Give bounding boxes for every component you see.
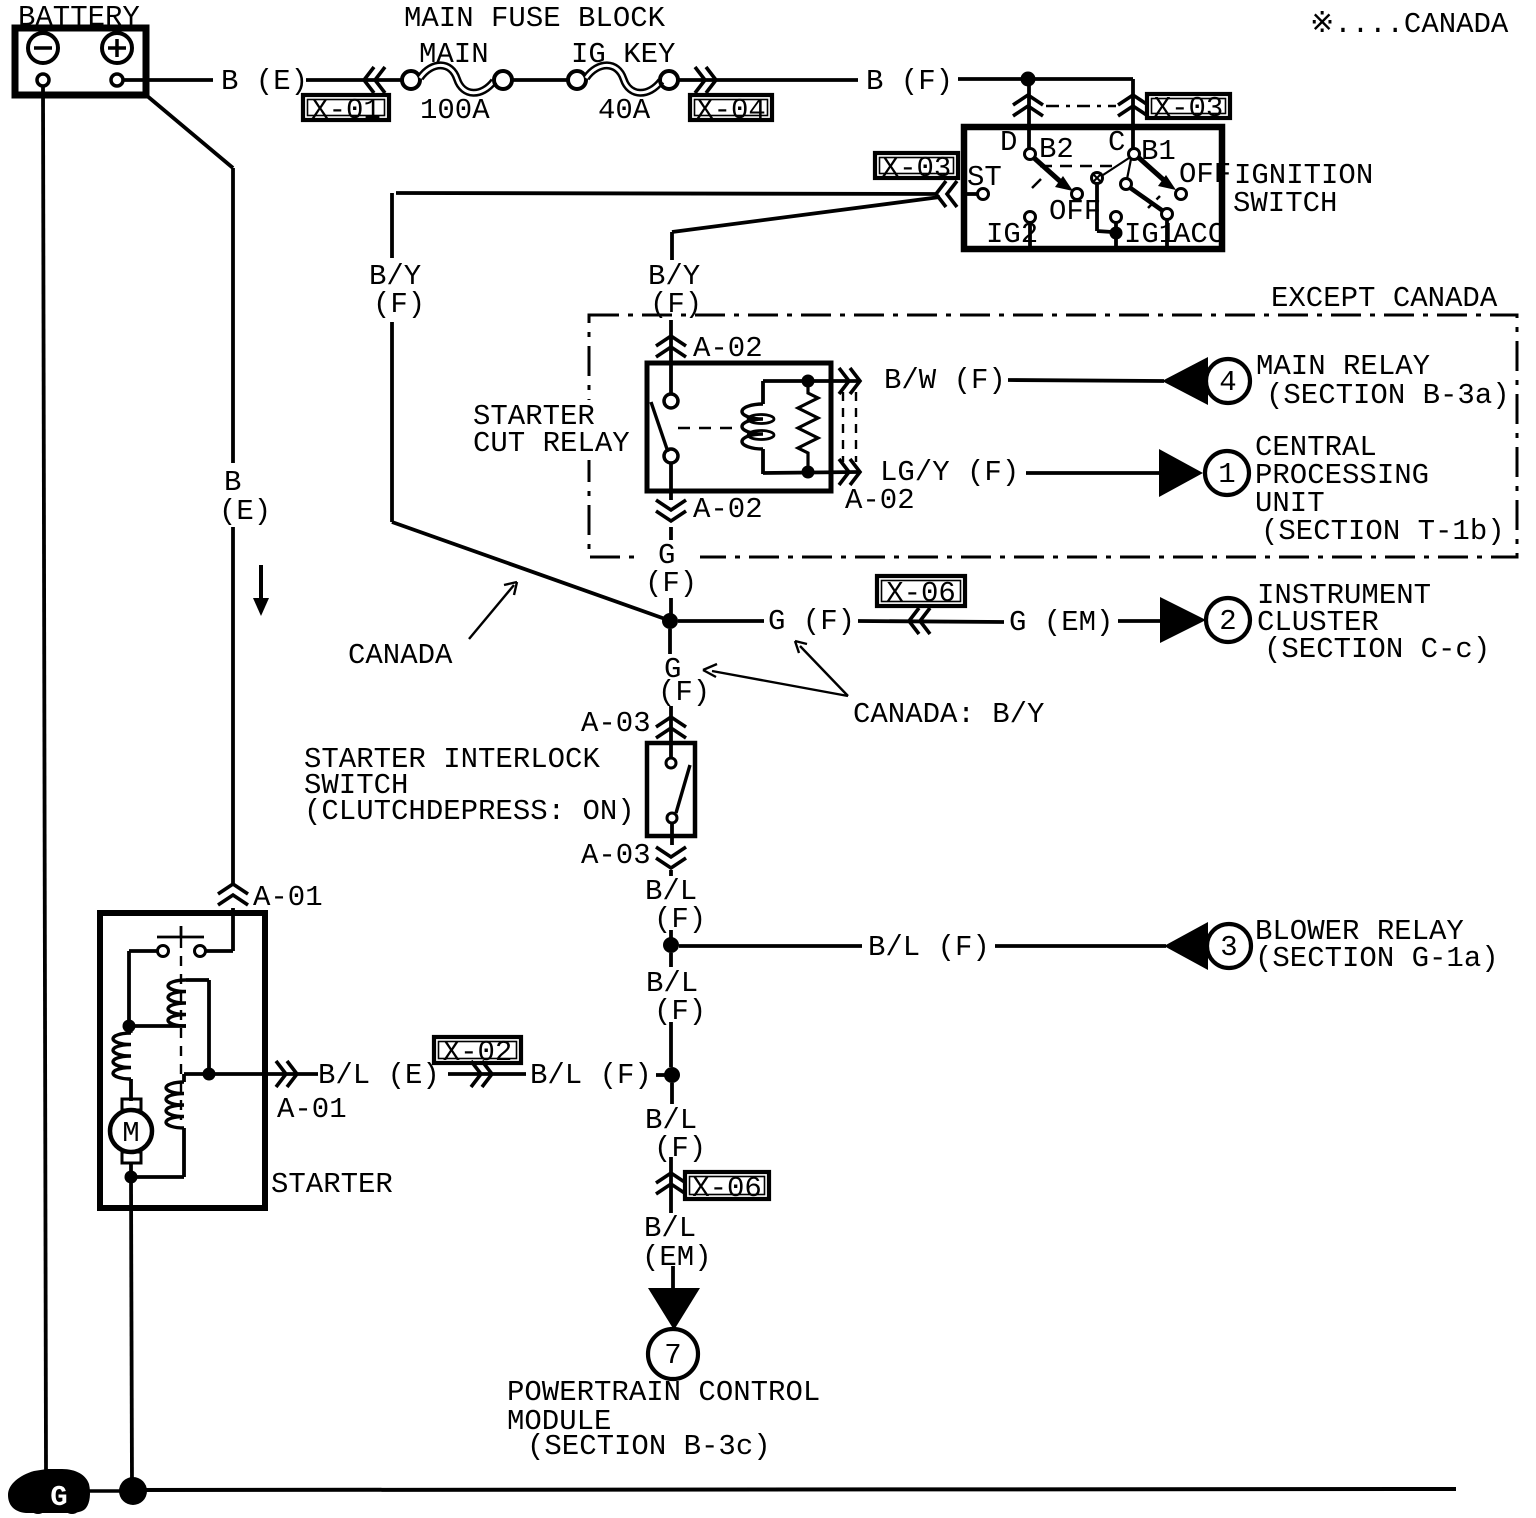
svg-text:B2: B2 [1039, 133, 1074, 166]
svg-text:ACC: ACC [1173, 218, 1225, 251]
wire to interlock [669, 706, 673, 743]
hold-in coil [168, 980, 186, 1026]
wire ground bond [84, 1489, 120, 1493]
svg-text:40A: 40A [598, 94, 651, 127]
wire B/W to main relay [1008, 380, 1164, 381]
wire ground bus [133, 1489, 1456, 1490]
contact IG2 with pin wire [1025, 212, 1036, 223]
contact ACC with pin wire [1162, 209, 1173, 220]
node IG1 [1110, 227, 1123, 240]
wire battery negative down [43, 87, 46, 1471]
arrow to main relay [1162, 357, 1208, 405]
svg-text:B (E): B (E) [221, 65, 308, 98]
connector X-03 (ST) [875, 153, 958, 178]
svg-text:A-02: A-02 [845, 484, 915, 517]
fuse MAIN 100A [402, 38, 512, 127]
svg-text:(F): (F) [645, 567, 697, 600]
wire battery positive to B(E) [123, 78, 213, 82]
relay dashed actuator link [678, 427, 740, 430]
wire into relay [669, 363, 673, 395]
wire B/L inside starter [184, 1072, 265, 1076]
contact OFF left [1072, 189, 1083, 200]
contact IG1 with pin wire [1111, 212, 1122, 223]
thin link B1 to transfer [1103, 158, 1129, 175]
svg-text:A-03: A-03 [581, 707, 651, 740]
wire B/L(E) out of starter [265, 1072, 318, 1076]
connector X-01 [303, 95, 389, 120]
dashed mark near ACC [1148, 196, 1160, 208]
arrow to instrument cluster [1160, 597, 1206, 643]
relay top bar [763, 379, 858, 383]
svg-text:CANADA: B/Y: CANADA: B/Y [853, 698, 1044, 731]
svg-text:A-01: A-01 [253, 881, 323, 914]
wire middle B/Y vertical [670, 232, 674, 260]
svg-text:(F): (F) [654, 1132, 706, 1165]
connector chevron B/W [850, 368, 860, 394]
connector chevron X-03 on C wire [1118, 95, 1148, 105]
except-canada dash-dot box [589, 315, 1517, 557]
svg-text:(SECTION B-3a): (SECTION B-3a) [1266, 379, 1510, 412]
wire to PCM arrow [671, 1266, 675, 1290]
svg-text:X-02: X-02 [443, 1036, 513, 1069]
relay contact bottom [664, 449, 678, 463]
svg-text:B/W (F): B/W (F) [884, 364, 1006, 397]
wire fuse block to B(F) [678, 78, 858, 82]
wire to G(F) node [669, 527, 673, 540]
wire ST diagonal to middle B/Y [672, 197, 940, 232]
node G(F) junction [662, 613, 678, 629]
svg-text:M: M [122, 1117, 139, 1150]
svg-text:A-01: A-01 [277, 1093, 347, 1126]
svg-text:(SECTION G-1a): (SECTION G-1a) [1255, 942, 1499, 975]
contact B1 [1129, 149, 1140, 160]
interlock wire out [670, 823, 674, 845]
connector chevron A-01 [218, 884, 248, 894]
wire B(E) vertical [231, 168, 235, 463]
fuse IG KEY 40A [568, 38, 678, 127]
connector chevron A-02 bottom [669, 491, 673, 500]
svg-text:X-04: X-04 [696, 94, 766, 127]
contact center transfer [1092, 173, 1103, 184]
svg-text:STARTER: STARTER [271, 1168, 393, 1201]
svg-text:ST: ST [967, 161, 1002, 194]
connector X-04 [690, 95, 772, 120]
wire below node 2 [670, 1083, 674, 1104]
svg-text:X-01: X-01 [311, 94, 381, 127]
resistor (relay shunt) [798, 381, 818, 472]
svg-text:4: 4 [1219, 366, 1236, 399]
svg-text:A-02: A-02 [693, 493, 763, 526]
svg-text:G: G [50, 1481, 67, 1514]
svg-text:EXCEPT CANADA: EXCEPT CANADA [1271, 282, 1498, 315]
contact mid-right [1121, 179, 1132, 190]
wire left B/Y vertical [390, 193, 394, 258]
connector chevron A-02 top [656, 336, 686, 346]
svg-text:C: C [1108, 126, 1125, 159]
field coil [129, 1026, 131, 1033]
svg-text:B/L (F): B/L (F) [868, 931, 990, 964]
wire G(F) horizontal [678, 619, 764, 623]
svg-text:B (F): B (F) [866, 65, 953, 98]
svg-text:※....CANADA: ※....CANADA [1310, 8, 1509, 41]
svg-text:X-03: X-03 [882, 152, 952, 185]
relay bottom bar [763, 472, 858, 473]
svg-text:3: 3 [1220, 931, 1237, 964]
svg-text:X-06: X-06 [692, 1172, 762, 1205]
node ground junction [119, 1477, 147, 1505]
wire to X-06 [669, 1157, 673, 1213]
wire to blower relay [679, 944, 862, 948]
connector chevron A-03 bottom [656, 858, 686, 868]
arrow to blower relay [1164, 922, 1208, 970]
svg-text:1: 1 [1218, 458, 1235, 491]
node starter A [123, 1020, 136, 1033]
dashed connector tie [1046, 105, 1116, 108]
ground body symbol G [8, 1469, 90, 1514]
starter box [100, 913, 265, 1208]
text gaps in dash-dot box [470, 400, 645, 460]
wire B(E) to fuse block [306, 78, 403, 82]
wire below relay contact [669, 463, 673, 491]
connector X-03 (top) [1147, 94, 1230, 118]
arrow to CPU [1159, 449, 1203, 497]
node 4 main relay [1206, 359, 1250, 403]
interlock blade [676, 765, 690, 813]
wire contact to node A [127, 951, 131, 1026]
connector X-06 [877, 576, 965, 606]
wire B(F) to ignition switch [958, 77, 1133, 81]
solenoid plunger bar [157, 936, 204, 939]
switch blade to ACC [1129, 187, 1163, 211]
wire LG/Y to CPU [1026, 471, 1159, 475]
wire B(E) diagonal [146, 95, 233, 168]
wire hold coil to B/L node [207, 980, 211, 1074]
svg-text:7: 7 [664, 1339, 681, 1372]
wire below G(F) node [668, 629, 672, 654]
connector chevron X-01 [364, 67, 374, 93]
canada-b/y arrow to G(F) label [800, 646, 848, 696]
svg-text:(EM): (EM) [642, 1241, 712, 1274]
connector chevron X-04 [706, 67, 716, 93]
relay coil [761, 381, 765, 404]
connector chevron X-06 bottom [656, 1173, 686, 1183]
connector chevron LG/Y [850, 459, 860, 485]
connector chevron X-03 on D wire [1013, 95, 1043, 105]
battery [15, 28, 146, 95]
svg-text:SWITCH: SWITCH [1233, 187, 1337, 220]
wire between B/L nodes [669, 953, 673, 967]
dash mark left [1032, 179, 1041, 188]
svg-text:100A: 100A [420, 94, 490, 127]
flow arrow [259, 565, 263, 600]
solenoid dashed actuator [180, 938, 182, 1120]
svg-text:(F): (F) [658, 676, 710, 709]
svg-text:CUT RELAY: CUT RELAY [473, 427, 630, 460]
svg-text:OFF: OFF [1179, 158, 1231, 191]
connector X-02 [434, 1037, 521, 1063]
connector chevron A-01 out [287, 1061, 297, 1087]
node coil top [802, 375, 815, 388]
connector X-06 bottom [685, 1172, 769, 1199]
starter interlock switch box [647, 743, 695, 836]
svg-text:(SECTION B-3c): (SECTION B-3c) [527, 1430, 771, 1463]
wire ST horizontal to left B/Y [396, 193, 938, 194]
node B(F) junction [1021, 72, 1036, 87]
svg-text:B/L (E): B/L (E) [318, 1059, 440, 1092]
svg-text:B/L (F): B/L (F) [530, 1059, 652, 1092]
wire transfer to IG1 node [1095, 184, 1099, 231]
node 7 powertrain control module [648, 1329, 698, 1379]
svg-text:2: 2 [1219, 605, 1236, 638]
svg-text:(F): (F) [654, 995, 706, 1028]
dashed connector pair [842, 392, 844, 462]
svg-text:MAIN: MAIN [419, 38, 489, 71]
svg-text:G (EM): G (EM) [1009, 606, 1113, 639]
node 1 central processing unit [1205, 451, 1249, 495]
svg-text:IG KEY: IG KEY [571, 38, 675, 71]
wire starter to ground [131, 1177, 132, 1488]
starter cut relay box [647, 363, 831, 491]
svg-text:(CLUTCHDEPRESS: ON): (CLUTCHDEPRESS: ON) [304, 795, 635, 828]
node B/L junction 1 [663, 937, 679, 953]
relay contact top [664, 394, 678, 408]
pull-in coil [182, 1074, 186, 1082]
node coil bottom [802, 466, 815, 479]
contact ST [978, 189, 989, 200]
contact B2 [1025, 149, 1036, 160]
svg-text:A-02: A-02 [693, 332, 763, 365]
svg-text:(F): (F) [654, 903, 706, 936]
interlock wire in [669, 743, 673, 758]
interlock contact bottom [667, 813, 677, 823]
svg-text:(F): (F) [373, 288, 425, 321]
svg-text:A-03: A-03 [581, 839, 651, 872]
switch blade B1-OFF [1138, 157, 1166, 182]
wire to blower node [669, 870, 673, 876]
wire canada diagonal [392, 522, 668, 620]
contact OFF right [1176, 189, 1187, 200]
connector chevron ST [936, 181, 946, 207]
connector chevron X-06 [909, 608, 919, 634]
wire B(F) down to B2 pin [1027, 79, 1031, 148]
svg-text:OFF: OFF [1049, 195, 1101, 228]
interlock contact top [666, 758, 676, 768]
node 2 instrument cluster [1206, 598, 1250, 642]
svg-text:G (F): G (F) [768, 605, 855, 638]
wire to X-02 [448, 1072, 526, 1076]
wire into node 2 [656, 1073, 666, 1077]
node 3 blower relay [1207, 924, 1251, 968]
relay blade [651, 402, 668, 452]
wire ST stub [962, 192, 977, 196]
svg-text:(E): (E) [219, 495, 271, 528]
wire B(F) down to B1 pin [1131, 79, 1135, 148]
svg-text:MAIN FUSE BLOCK: MAIN FUSE BLOCK [404, 2, 666, 35]
svg-text:CANADA: CANADA [348, 639, 453, 672]
canada callout arrow [469, 585, 514, 639]
node B/L junction 2 [664, 1067, 680, 1083]
switch blade B2-OFF [1033, 157, 1062, 183]
connector chevron X-02 [482, 1061, 492, 1087]
dashed gang link [1040, 165, 1114, 168]
connector chevron A-03 top [656, 717, 686, 727]
svg-text:X-03: X-03 [1154, 92, 1224, 125]
svg-text:(SECTION C-c): (SECTION C-c) [1264, 633, 1490, 666]
svg-text:D: D [1000, 126, 1017, 159]
arrow to PCM [648, 1288, 700, 1330]
svg-text:(SECTION T-1b): (SECTION T-1b) [1261, 515, 1505, 548]
wire between fuses [512, 78, 569, 82]
wire into starter [231, 908, 235, 951]
node starter ground [125, 1171, 138, 1184]
ignition switch box [964, 127, 1222, 249]
starter solenoid contacts [206, 949, 233, 953]
svg-text:IG2: IG2 [986, 218, 1038, 251]
canada-b/y arrow to wire [712, 671, 848, 696]
svg-text:X-06: X-06 [886, 577, 956, 610]
node starter B/L [203, 1068, 216, 1081]
motor M [122, 1099, 141, 1110]
